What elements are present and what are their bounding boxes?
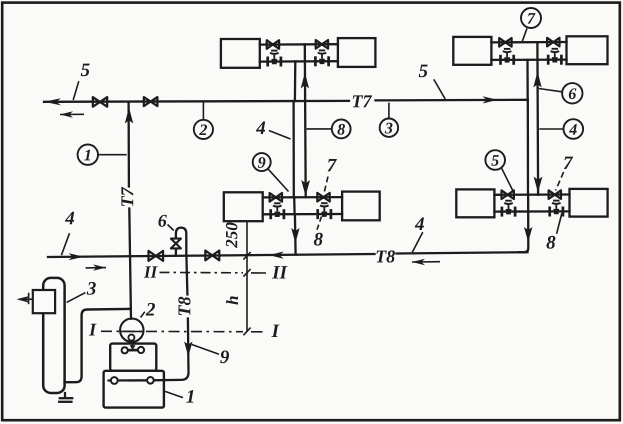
- arrow down on T8 drop: [184, 342, 192, 357]
- callout circle 7: [521, 8, 541, 41]
- regulating valve A-lower-left: [271, 203, 284, 219]
- section line II-II: [160, 271, 267, 274]
- arrow down on supply riser A: [301, 180, 310, 196]
- valve on T8 return (left): [149, 251, 164, 261]
- radiator lower-left A: [224, 192, 263, 221]
- callout circle 3: [380, 103, 398, 137]
- valve radiator A-lower-right: [317, 193, 329, 202]
- valve radiator B-upper-right: [547, 38, 559, 47]
- callout circle 8: [307, 119, 351, 138]
- label 8 (left group) dashed leader: [314, 217, 323, 246]
- label T7 rotated on riser: [121, 187, 133, 206]
- wire top connection pipe B-lower: [494, 193, 569, 196]
- callout circle 9: [253, 153, 289, 191]
- dimension tick at T8: [243, 252, 250, 260]
- label II left: [144, 266, 158, 277]
- label 4 (riser) with leader: [256, 122, 291, 139]
- radiator lower-right A: [342, 192, 380, 221]
- dimension tick at II: [243, 269, 250, 277]
- valve on T8 return (right): [205, 251, 219, 261]
- pump 2 circle: [120, 319, 143, 342]
- arrow down on supply riser B: [534, 177, 543, 193]
- arrow flow on T7 right segment: [483, 96, 498, 103]
- wire tank to pump suction: [65, 309, 129, 382]
- regulating valve B-lower-right: [550, 201, 563, 217]
- wire return riser B between radiator pipes: [527, 195, 529, 212]
- wire supply riser B: [536, 42, 539, 194]
- callout circle 2: [194, 103, 213, 140]
- wire T8 return main right segment: [397, 252, 528, 253]
- valve radiator B-lower-right: [549, 190, 561, 199]
- callout circle 6: [539, 83, 583, 103]
- wire return riser A lower: [292, 101, 294, 197]
- label 9 with leader: [192, 345, 229, 364]
- wire return riser A between radiator pipes: [293, 197, 296, 214]
- label 4 (left return) with leader: [61, 212, 74, 255]
- label 7 (left group) dashed leader: [324, 159, 337, 192]
- wire supply riser A: [304, 44, 307, 197]
- wire T8 drop lower with elbow to boiler: [152, 319, 189, 381]
- wire vent loop arch: [176, 228, 186, 256]
- wire return riser B upper: [526, 60, 529, 100]
- wire return riser A upper: [294, 61, 297, 101]
- arrow up on supply riser A: [301, 73, 309, 89]
- label 2 with leader: [141, 303, 155, 318]
- arrow up on supply riser B: [533, 72, 541, 88]
- radiator upper-right A: [338, 38, 376, 67]
- valve radiator B-upper-left: [499, 38, 511, 47]
- label 3 with leader: [67, 282, 96, 302]
- wire T7 supply main left segment: [44, 100, 349, 103]
- arrow flow on T8 toward drop: [69, 253, 84, 260]
- arrow flow on T8 middle: [269, 252, 284, 259]
- label 5 (right) with leader: [419, 65, 445, 99]
- radiator upper-left B: [453, 37, 491, 65]
- expansion tank 3: [43, 278, 64, 393]
- wire T7 supply main right segment: [376, 99, 528, 102]
- wire top connection pipe A-lower: [263, 196, 342, 199]
- valve radiator A-upper-right: [316, 40, 328, 49]
- wire T8 return main left segment: [48, 254, 375, 257]
- regulating valve A-upper-right: [315, 50, 328, 66]
- arrow left end of T7 main: [44, 98, 61, 105]
- callout circle 1: [78, 145, 127, 165]
- boiler lower body: [104, 371, 164, 408]
- radiator upper-right B: [567, 36, 608, 64]
- wire bottom connection pipe A-lower: [263, 213, 342, 216]
- label 5 (left) with leader: [73, 64, 89, 100]
- label T8 rotated on drop: [178, 297, 190, 315]
- wire T8 drop upper: [186, 255, 187, 294]
- label 250 rotated: [226, 223, 237, 248]
- regulating valve B-upper-left: [501, 49, 514, 65]
- label I left: [89, 324, 97, 336]
- valve on T7 main (second): [144, 97, 158, 106]
- valve radiator A-upper-left: [267, 40, 279, 49]
- regulating valve B-upper-right: [548, 49, 561, 65]
- wire top connection pipe A-upper: [260, 43, 338, 46]
- regulating valve A-lower-right: [318, 203, 331, 219]
- callout circle 5: [485, 150, 513, 191]
- wire top connection pipe B-upper: [491, 41, 566, 44]
- valve radiator B-lower-left: [502, 190, 514, 199]
- wire return riser B to T8 corner: [519, 212, 528, 253]
- valve on T7 main (left): [93, 97, 107, 107]
- valve radiator A-lower-left: [270, 193, 282, 202]
- ground (drain) symbol: [59, 393, 72, 402]
- boiler internal pipe: [109, 377, 154, 384]
- overflow box on tank: [33, 290, 55, 313]
- pump mount: [122, 341, 144, 354]
- label 7 (right group) dashed leader: [556, 157, 574, 191]
- arrow flow indicator under T8 left: [86, 264, 107, 270]
- wire return riser A to T8: [294, 214, 297, 254]
- boiler upper body: [110, 344, 156, 371]
- wire return riser B lower: [527, 100, 530, 195]
- arrow flow indicator under T8 right: [412, 259, 440, 265]
- label T7 on supply main: [353, 95, 372, 107]
- arrow down on return riser A: [291, 228, 299, 243]
- regulating valve A-upper-left: [268, 51, 281, 67]
- wire main riser lower (label gap to pump): [129, 209, 131, 319]
- label T8 on return main: [377, 250, 395, 262]
- radiator lower-left B: [456, 189, 494, 217]
- label 6 with leader: [158, 215, 173, 231]
- arrow flow indicator under T7 left: [60, 111, 84, 117]
- label 1 with leader: [165, 390, 193, 403]
- dimension tick at I: [243, 328, 250, 336]
- label 4 (right return) with leader: [412, 218, 424, 253]
- overflow arrow: [17, 293, 33, 304]
- label II right: [272, 266, 288, 278]
- wire main riser upper (T7 junction down to label gap): [127, 102, 130, 187]
- radiator lower-right B: [570, 189, 608, 217]
- arrow flow up on main riser: [125, 108, 133, 124]
- arrow down on return riser B: [524, 227, 532, 242]
- dimension line vertical: [246, 222, 248, 332]
- callout circle 4: [539, 119, 583, 139]
- label h rotated: [226, 296, 238, 304]
- section line I-I: [101, 330, 263, 333]
- wire bottom connection pipe B-upper: [491, 58, 566, 61]
- label 8 (right group) with leader: [546, 214, 561, 249]
- radiator upper-left A: [221, 39, 260, 68]
- wire bottom connection pipe A-upper: [260, 60, 338, 63]
- regulating valve B-lower-left: [502, 201, 515, 217]
- label I right: [271, 325, 279, 337]
- valve (vertical) on vent loop: [171, 239, 181, 249]
- wire bottom connection pipe B-lower: [494, 210, 569, 213]
